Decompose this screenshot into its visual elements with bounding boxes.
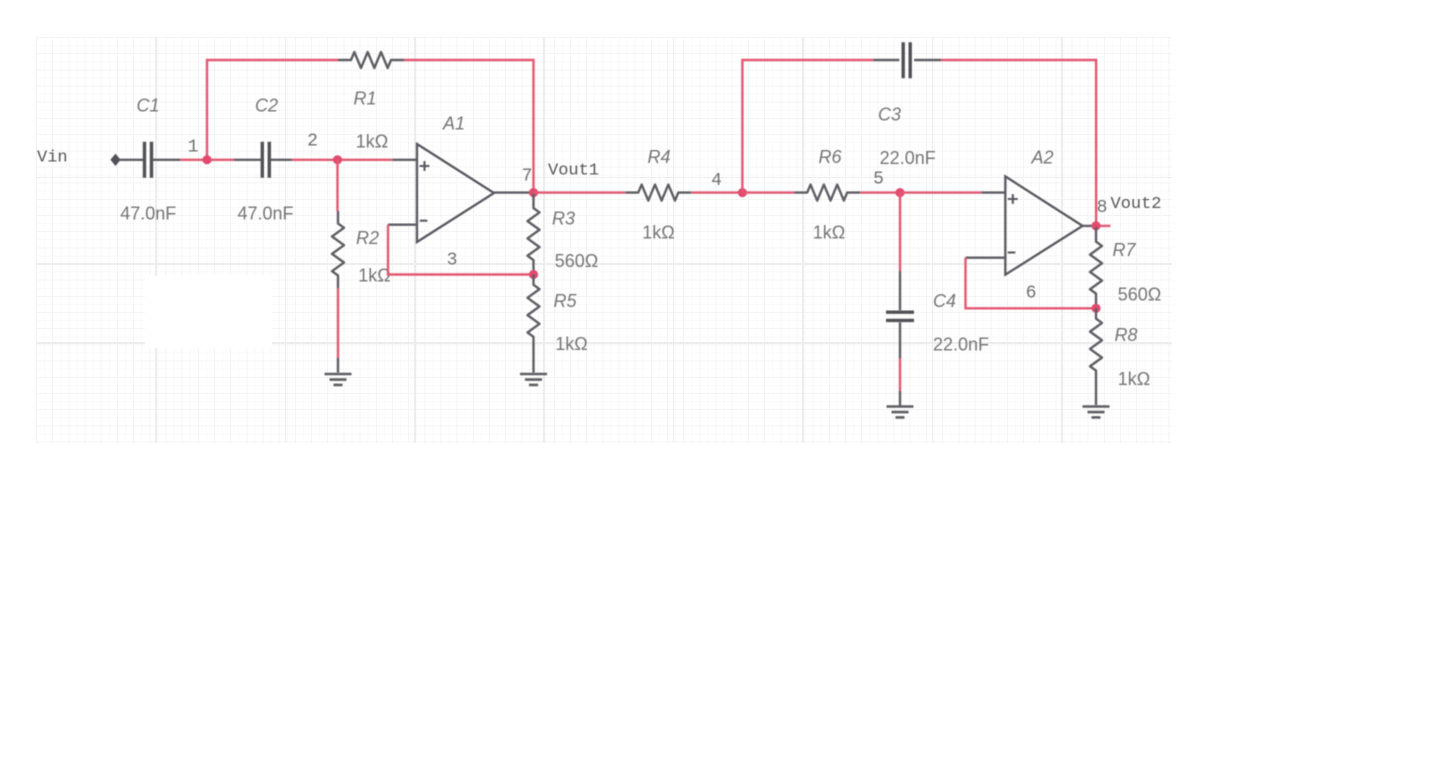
svg-text:A2: A2: [1030, 148, 1053, 168]
wire R1 to node 7: [404, 60, 534, 193]
svg-text:2: 2: [307, 132, 318, 152]
svg-text:560Ω: 560Ω: [555, 251, 599, 271]
node 8 junction: [1091, 221, 1100, 230]
wire node 4 up to C3: [742, 60, 873, 193]
svg-text:6: 6: [1026, 284, 1037, 304]
resistor R7: [1090, 227, 1102, 308]
wire Vin to C1: [119, 159, 143, 161]
svg-text:7: 7: [522, 167, 533, 187]
svg-text:R7: R7: [1112, 240, 1136, 260]
wire node 4 to R6: [742, 191, 794, 193]
svg-text:C3: C3: [878, 105, 901, 125]
wire node 1 to C2: [207, 159, 234, 161]
capacitor C3: [903, 42, 910, 78]
node 7 junction: [529, 188, 538, 197]
node 4 junction: [738, 188, 747, 197]
wire C3 to node 8: [941, 60, 1096, 226]
ground under C4: [887, 407, 914, 418]
wire node 2 down to R2: [336, 160, 338, 211]
svg-text:R6: R6: [818, 147, 842, 167]
svg-text:A1: A1: [442, 114, 465, 134]
lead C2 right: [271, 159, 292, 161]
svg-text:3: 3: [447, 251, 458, 271]
resistor R8: [1090, 308, 1102, 381]
svg-text:4: 4: [711, 171, 722, 191]
node 6 junction: [1091, 304, 1100, 313]
lead C2 left: [234, 159, 261, 161]
svg-text:1kΩ: 1kΩ: [555, 334, 587, 354]
wire C2 to node 2 to A1: [292, 159, 393, 161]
svg-text:C1: C1: [136, 96, 159, 116]
svg-text:5: 5: [873, 170, 884, 190]
svg-text:47.0nF: 47.0nF: [237, 204, 293, 224]
node 3 junction: [529, 270, 538, 279]
svg-text:Vin: Vin: [37, 149, 68, 168]
svg-text:R8: R8: [1114, 325, 1137, 345]
lead C1 right: [152, 159, 180, 161]
wire R4 to node 4: [691, 191, 742, 193]
lead A1 plus input: [393, 159, 417, 161]
input terminal Vin: [110, 154, 120, 166]
capacitor C1: [145, 142, 152, 178]
wire node 7 to R4: [534, 191, 626, 193]
lead A2 minus input: [966, 257, 1006, 259]
svg-text:1kΩ: 1kΩ: [356, 132, 388, 152]
lead A2 output: [1083, 225, 1096, 227]
svg-text:R2: R2: [356, 228, 379, 248]
lead C4 top: [899, 271, 901, 310]
svg-text:1kΩ: 1kΩ: [813, 223, 845, 243]
resistor R1: [338, 52, 404, 68]
wire node 1 up to R1: [207, 60, 338, 160]
lead ground 1: [337, 358, 339, 373]
svg-text:560Ω: 560Ω: [1118, 285, 1162, 305]
lead A1 minus input: [388, 223, 417, 225]
resistor R2: [332, 211, 344, 288]
svg-text:Vout2: Vout2: [1111, 195, 1162, 214]
svg-text:R4: R4: [647, 147, 670, 167]
lead C4 bottom: [899, 322, 901, 358]
wire C4 to ground: [899, 358, 901, 391]
op-amp A2: [1005, 176, 1082, 274]
resistor R3: [528, 194, 540, 275]
ground under R5: [520, 374, 547, 385]
svg-text:C2: C2: [255, 96, 278, 116]
node 2 junction: [333, 155, 342, 164]
svg-text:22.0nF: 22.0nF: [880, 148, 936, 168]
wire node 8 stub: [1096, 225, 1110, 227]
wire C1 to node 1: [180, 159, 207, 161]
wire R6 to node 5: [860, 191, 900, 193]
wire A2 minus to node 6: [966, 258, 1097, 309]
wire A1 minus to node 3: [388, 225, 534, 275]
lead C3 right: [914, 59, 941, 61]
svg-text:C4: C4: [933, 291, 956, 311]
wire R2 to ground: [337, 288, 339, 358]
node 5 junction: [895, 188, 904, 197]
svg-text:R5: R5: [553, 291, 577, 311]
node 1 junction: [202, 155, 211, 164]
svg-text:1kΩ: 1kΩ: [1118, 369, 1150, 389]
resistor R4: [625, 185, 691, 201]
svg-text:1: 1: [188, 138, 199, 158]
svg-text:1kΩ: 1kΩ: [642, 223, 674, 243]
lead R8 to ground: [1095, 381, 1097, 405]
capacitor C2: [262, 142, 269, 178]
lead A1 output: [494, 191, 534, 193]
svg-text:47.0nF: 47.0nF: [120, 204, 176, 224]
svg-text:R3: R3: [552, 209, 575, 229]
capacitor C4: [886, 312, 914, 320]
resistor R6: [794, 185, 860, 201]
ground under R8: [1083, 407, 1110, 418]
lead A2 plus input: [981, 191, 1005, 193]
svg-text:R1: R1: [353, 89, 376, 109]
lead R5 to ground: [532, 347, 534, 373]
lead C3 left: [873, 59, 899, 61]
svg-text:22.0nF: 22.0nF: [933, 335, 989, 355]
wire node 5 to A2: [900, 191, 981, 193]
lead ground C4: [899, 391, 901, 406]
wire node 5 down to C4: [899, 193, 901, 271]
op-amp A1: [417, 144, 494, 242]
resistor R5: [528, 275, 540, 348]
svg-text:1kΩ: 1kΩ: [358, 266, 390, 286]
ground under R2: [325, 374, 352, 385]
svg-text:Vout1: Vout1: [548, 162, 599, 181]
svg-text:8: 8: [1097, 198, 1108, 218]
